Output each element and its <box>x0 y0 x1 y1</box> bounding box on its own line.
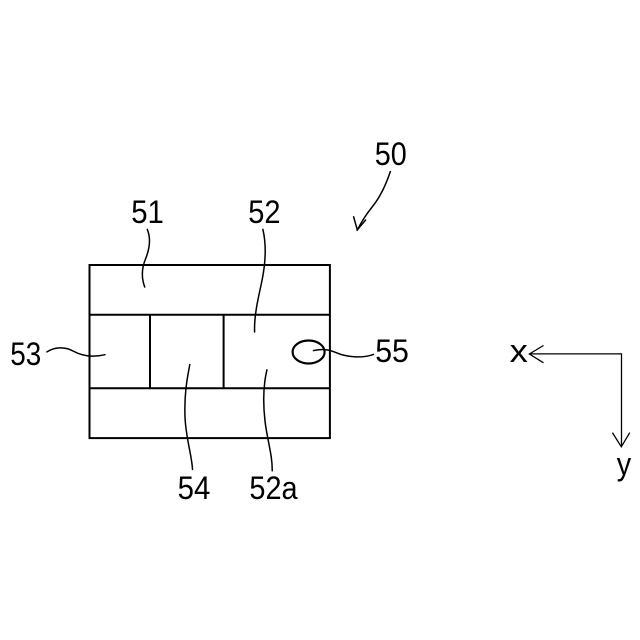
svg-text:52a: 52a <box>249 470 297 506</box>
boundary between layer 51 and middle layers <box>90 314 330 316</box>
svg-text:54: 54 <box>178 470 211 506</box>
mark 55 (ellipse) <box>293 341 325 364</box>
leader line 55 <box>314 350 374 357</box>
svg-text:51: 51 <box>131 194 164 230</box>
divider between region 53 and region 54 <box>149 315 151 389</box>
leader line 52 <box>255 229 266 332</box>
divider between region 54 and region 52 <box>223 315 225 389</box>
svg-text:50: 50 <box>375 136 407 172</box>
leader line 52a <box>264 370 272 471</box>
svg-text:x: x <box>510 333 528 369</box>
arrow 50 shaft <box>357 172 390 231</box>
svg-text:52: 52 <box>248 194 280 230</box>
x-y axes lines <box>530 354 622 446</box>
svg-text:55: 55 <box>375 333 409 369</box>
x axis arrowhead <box>529 346 543 363</box>
leader line 51 <box>142 229 149 287</box>
leader line 54 <box>185 365 193 470</box>
svg-text:y: y <box>617 446 631 482</box>
y axis arrowhead <box>612 433 629 447</box>
svg-text:53: 53 <box>10 336 41 372</box>
layer stack outline 50 <box>90 265 330 438</box>
arrow 50 head <box>354 217 366 230</box>
leader line 53 <box>47 348 105 356</box>
boundary between middle layers and bottom layer 52a <box>90 387 330 389</box>
